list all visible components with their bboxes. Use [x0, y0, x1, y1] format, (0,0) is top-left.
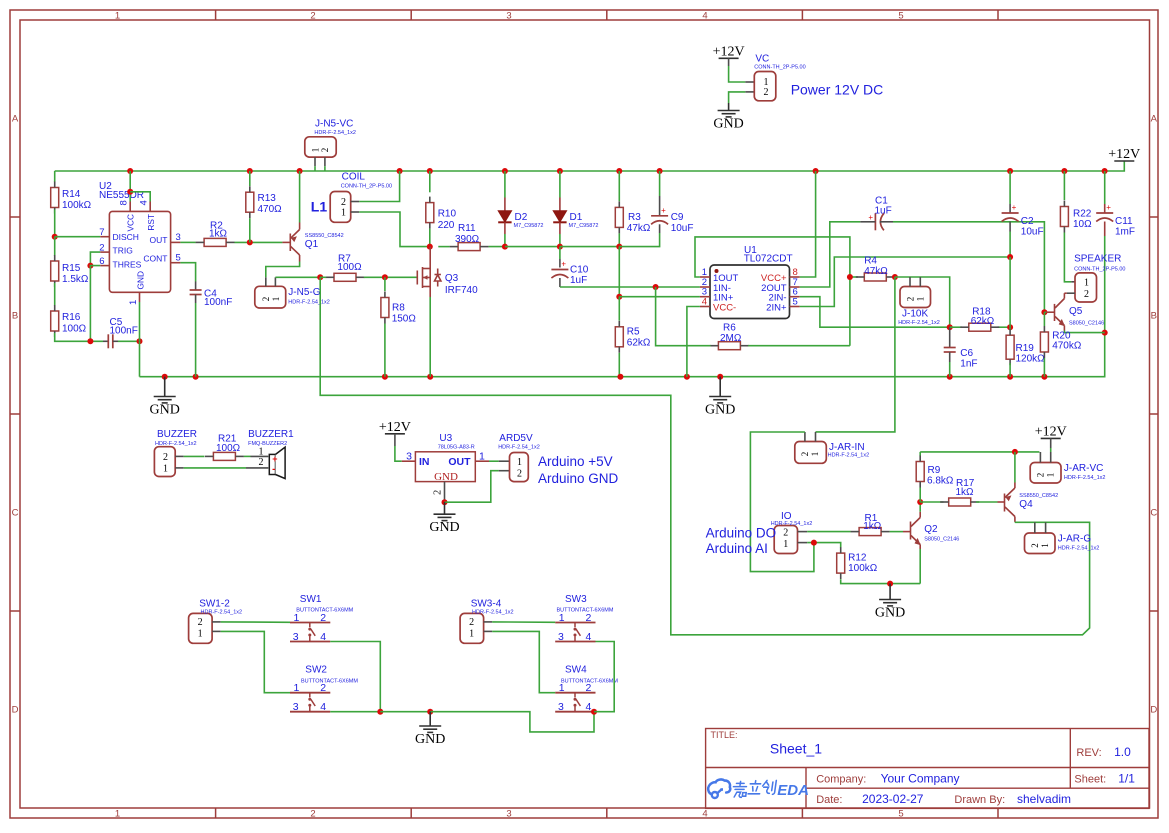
svg-text:GND: GND — [705, 403, 735, 418]
connector J-AR-G — [1025, 533, 1056, 554]
svg-text:ARD5V: ARD5V — [499, 433, 533, 444]
svg-text:1.5kΩ: 1.5kΩ — [62, 274, 89, 285]
pin 2 J-AR-G — [1034, 522, 1036, 533]
svg-text:47kΩ: 47kΩ — [864, 266, 888, 277]
junction at 849.9,277 — [847, 274, 853, 280]
capacitor C9 — [651, 206, 668, 225]
svg-text:1kΩ: 1kΩ — [956, 487, 975, 498]
title block — [706, 729, 1149, 809]
switch SW3 — [555, 623, 595, 642]
resistor R9 — [916, 462, 924, 482]
wire — [195, 282, 197, 291]
svg-text:+: + — [1106, 203, 1111, 212]
pin 2 J-10K — [909, 277, 911, 287]
connector ARD5V — [510, 453, 529, 482]
svg-text:1: 1 — [163, 464, 168, 475]
pin 1 J-N5-VC — [314, 157, 316, 166]
connector J-N5-VC — [305, 137, 336, 157]
junction at 619.3,171 — [616, 168, 622, 174]
svg-text:TITLE:: TITLE: — [711, 730, 738, 740]
svg-text:RST: RST — [146, 214, 156, 231]
wire — [728, 58, 730, 66]
junction at 299.6,171 — [297, 168, 303, 174]
svg-text:R9: R9 — [928, 465, 941, 476]
wire U1 pin1 feedback — [695, 237, 850, 346]
+12V power flag — [1035, 424, 1067, 439]
wire — [1009, 222, 1011, 232]
svg-text:R22: R22 — [1073, 209, 1092, 220]
junction at 444.5,502.2 — [442, 499, 448, 505]
wire Q1 emitter to +12V — [299, 171, 301, 223]
svg-text:BUZZER: BUZZER — [157, 429, 197, 440]
svg-text:2: 2 — [198, 617, 203, 628]
pin 6 U1 — [790, 296, 800, 298]
svg-text:100nF: 100nF — [110, 326, 138, 337]
svg-text:47kΩ: 47kΩ — [627, 223, 651, 234]
svg-text:+: + — [1012, 203, 1017, 212]
diode D2 — [498, 198, 511, 235]
resistor R4 — [864, 273, 886, 281]
svg-text:2: 2 — [433, 490, 444, 495]
wire THRES down — [90, 266, 100, 342]
wire — [949, 327, 951, 347]
wire — [559, 247, 561, 259]
junction at 815.6,171 — [813, 168, 819, 174]
pin 2 U2 — [100, 251, 109, 253]
svg-text:1: 1 — [915, 297, 925, 302]
svg-text:1: 1 — [1084, 278, 1089, 289]
wire — [880, 221, 893, 223]
pin 1 U3 — [475, 460, 489, 462]
wire SW1 pin4 down — [330, 642, 380, 712]
junction at 130.2,171 — [127, 168, 133, 174]
wire — [1009, 232, 1011, 258]
ground at VC — [713, 111, 743, 132]
svg-text:C9: C9 — [671, 212, 684, 223]
frame column numbers — [115, 10, 904, 819]
svg-text:3: 3 — [293, 631, 299, 643]
resistor R13 — [246, 192, 254, 212]
junction at 139.5,341.3 — [137, 338, 143, 344]
pin 2 COIL — [351, 201, 360, 203]
resistor R2 — [204, 238, 226, 246]
wire pin2 VC — [745, 91, 754, 93]
svg-text:GND: GND — [136, 271, 146, 289]
connector J-10K — [900, 287, 931, 308]
connector SPEAKER — [1075, 273, 1097, 302]
svg-text:Power 12V DC: Power 12V DC — [791, 81, 884, 97]
svg-text:Drawn By:: Drawn By: — [954, 794, 1005, 806]
svg-text:VCC-: VCC- — [713, 303, 736, 314]
svg-text:J-N5-VC: J-N5-VC — [315, 118, 353, 129]
junction at 619.3,296.7 — [616, 294, 622, 300]
svg-text:THRES: THRES — [113, 259, 142, 269]
wire — [504, 171, 506, 198]
svg-text:4: 4 — [320, 631, 326, 643]
resistor R3 — [615, 207, 623, 227]
pin 2 SW1-2 — [212, 621, 221, 623]
svg-text:390Ω: 390Ω — [455, 234, 480, 245]
svg-text:J-N5-G: J-N5-G — [288, 287, 320, 298]
svg-text:3: 3 — [558, 631, 564, 643]
svg-text:2: 2 — [320, 148, 330, 153]
+12V power flag — [713, 44, 745, 59]
svg-text:B: B — [1151, 311, 1157, 322]
wire — [618, 297, 620, 321]
resistor R11 — [458, 243, 480, 251]
wire — [505, 246, 560, 248]
connector VC — [754, 72, 776, 101]
wire — [1044, 311, 1046, 313]
transistor Q3 IRF740 MOSFET — [417, 267, 441, 288]
wire — [384, 277, 386, 291]
svg-text:2: 2 — [586, 612, 592, 624]
svg-text:1: 1 — [469, 629, 474, 640]
svg-text:HDR-F-2.54_1x2: HDR-F-2.54_1x2 — [828, 453, 870, 459]
wire C10 to U1 pin2 — [560, 286, 656, 288]
svg-text:1uF: 1uF — [570, 275, 587, 286]
wire — [950, 326, 962, 328]
wire — [1104, 236, 1106, 333]
svg-text:CONN-TH_2P-P5.00: CONN-TH_2P-P5.00 — [754, 64, 805, 70]
svg-text:HDR-F-2.54_1x2: HDR-F-2.54_1x2 — [201, 610, 243, 616]
svg-text:1: 1 — [479, 451, 485, 463]
wire U3 gnd to ARD5V pin2 — [445, 471, 499, 503]
svg-text:1: 1 — [810, 452, 820, 457]
junction at 890.1,583.6 — [887, 581, 893, 587]
svg-text:1kΩ: 1kΩ — [863, 521, 882, 532]
resistor R14 — [51, 188, 59, 208]
wire — [139, 341, 141, 376]
wire DISCH — [55, 236, 100, 238]
svg-text:1: 1 — [559, 682, 565, 694]
svg-text:2: 2 — [310, 10, 315, 21]
svg-text:3: 3 — [558, 701, 564, 713]
wire Q2 collector — [919, 502, 921, 512]
wire SW1-2 pin1 to SW2 — [221, 631, 290, 692]
connector COIL L1 — [330, 192, 351, 223]
resistor R16 — [51, 311, 59, 331]
pin 1 J-AR-IN — [815, 432, 817, 442]
svg-text:HDR-F-2.54_1x2: HDR-F-2.54_1x2 — [898, 320, 940, 326]
junction at 1044.4,312.2 — [1041, 309, 1047, 315]
pin 2 U1 — [700, 286, 710, 288]
capacitor C4 — [190, 290, 202, 295]
svg-text:2: 2 — [259, 457, 264, 468]
pin 1 U1 — [700, 276, 710, 278]
svg-text:2: 2 — [261, 297, 271, 302]
wire pin1 VC — [745, 81, 754, 83]
wire SW1-2 pin2 to SW1 — [221, 621, 290, 623]
svg-text:3: 3 — [293, 701, 299, 713]
capacitor C11 — [1096, 203, 1113, 222]
junction at 320.2,277.3 — [317, 274, 323, 280]
svg-text:2: 2 — [341, 197, 346, 208]
wire — [1009, 257, 1011, 327]
wire — [559, 171, 561, 198]
svg-text:1: 1 — [128, 300, 139, 305]
svg-text:1uF: 1uF — [875, 205, 892, 216]
junction at 1104.7,332.6 — [1102, 330, 1108, 336]
svg-text:SPEAKER: SPEAKER — [1074, 254, 1121, 265]
wire VCC pin8 — [129, 171, 131, 202]
wire — [314, 166, 316, 171]
wire — [489, 246, 505, 248]
junction at 504.9,246.6 — [502, 244, 508, 250]
svg-text:78L05G-A83-R: 78L05G-A83-R — [438, 444, 475, 450]
svg-text:OUT: OUT — [448, 456, 471, 468]
pin 1 IO — [798, 542, 808, 544]
wire Q3 source — [429, 297, 431, 377]
junction at 594,711.7 — [591, 709, 597, 715]
wire — [860, 221, 875, 223]
pin 3 U1 — [700, 296, 710, 298]
wire R22 to speaker pin1 — [1064, 233, 1071, 282]
svg-text:SW2: SW2 — [305, 665, 327, 676]
svg-text:2: 2 — [1036, 473, 1046, 478]
svg-text:2023-02-27: 2023-02-27 — [862, 792, 924, 806]
wire — [118, 340, 140, 342]
pin 8 U2 — [129, 202, 131, 212]
wire — [976, 501, 998, 503]
pin 2 J-N5-G — [265, 277, 267, 286]
wire — [249, 171, 251, 186]
connector BUZZER — [154, 447, 175, 477]
svg-text:HDR-F-2.54_1x2: HDR-F-2.54_1x2 — [472, 610, 514, 616]
wire — [998, 326, 1011, 328]
wire — [1050, 448, 1052, 452]
wire — [850, 276, 858, 278]
transistor Q4 SS8550 PNP — [998, 483, 1015, 522]
wire SW3-4 pin2 to SW3 — [492, 621, 555, 623]
svg-text:R5: R5 — [627, 327, 640, 338]
junction at 195.6,376.7 — [193, 374, 199, 380]
svg-text:R16: R16 — [62, 312, 81, 323]
wire — [438, 246, 449, 248]
svg-text:1nF: 1nF — [960, 359, 977, 370]
svg-text:Sheet_1: Sheet_1 — [770, 741, 822, 757]
wire — [656, 286, 700, 288]
resistor R21 — [213, 452, 235, 460]
svg-text:VCC: VCC — [126, 214, 136, 232]
wire — [1043, 312, 1045, 326]
svg-text:Arduino DO: Arduino DO — [706, 526, 777, 541]
ground middle — [705, 397, 735, 418]
pin 5 U2 — [171, 262, 181, 264]
pin 7 U2 — [100, 236, 109, 238]
capacitor C1 — [868, 213, 884, 231]
svg-text:shelvadim: shelvadim — [1017, 792, 1071, 806]
junction at 384.9,277.3 — [382, 274, 388, 280]
wire — [324, 166, 326, 171]
svg-text:2: 2 — [764, 87, 769, 98]
svg-text:GND: GND — [434, 471, 458, 483]
svg-text:R13: R13 — [258, 193, 277, 204]
wire buzzer pin2 — [246, 467, 268, 469]
svg-text:1/1: 1/1 — [1118, 772, 1135, 786]
svg-text:R12: R12 — [848, 553, 867, 564]
ground at U3 — [429, 514, 459, 535]
svg-text:1: 1 — [1046, 473, 1056, 478]
svg-text:2: 2 — [905, 297, 915, 302]
svg-text:62kΩ: 62kΩ — [627, 338, 651, 349]
wire — [618, 171, 620, 201]
svg-text:3: 3 — [506, 10, 511, 21]
svg-text:A: A — [12, 114, 19, 125]
pin 1 U2 — [139, 292, 141, 302]
wire Q2 emitter — [919, 549, 921, 584]
wire — [55, 333, 103, 341]
svg-text:HDR-F-2.54_1x2: HDR-F-2.54_1x2 — [314, 130, 356, 136]
wire R12 bottom — [841, 579, 921, 583]
svg-text:S8050_C2146: S8050_C2146 — [924, 537, 959, 543]
frame row letters — [12, 114, 1158, 716]
svg-text:2IN+: 2IN+ — [766, 303, 787, 314]
junction at 559.9,246.6 — [557, 244, 563, 250]
svg-text:1: 1 — [294, 682, 300, 694]
wire — [1009, 171, 1011, 204]
svg-text:L1: L1 — [311, 199, 328, 215]
connector SW1-2 — [189, 613, 213, 643]
pin 5 U1 — [790, 306, 800, 308]
wire — [54, 210, 56, 237]
wire — [380, 711, 430, 713]
pin 2 BUZZER — [175, 455, 184, 457]
svg-text:HDR-F-2.54_1x2: HDR-F-2.54_1x2 — [1064, 475, 1106, 481]
resistor R15 — [51, 261, 59, 281]
wire to J-AR-IN pin1 — [816, 277, 895, 432]
svg-text:470Ω: 470Ω — [258, 204, 283, 215]
svg-text:1kΩ: 1kΩ — [209, 229, 228, 240]
junction at 1014.9,451.9 — [1012, 449, 1018, 455]
junction at 1104.6,171 — [1102, 168, 1108, 174]
junction at 429.8,171 — [427, 168, 433, 174]
wire — [394, 434, 396, 446]
junction at 249.8,242.4 — [247, 239, 253, 245]
wire — [1009, 363, 1011, 377]
wire — [184, 455, 205, 457]
svg-text:100Ω: 100Ω — [337, 262, 362, 273]
svg-text:SW1: SW1 — [300, 594, 322, 605]
svg-text:EDA: EDA — [777, 782, 809, 799]
svg-text:D2: D2 — [515, 212, 528, 223]
wire — [384, 324, 386, 377]
svg-text:Sheet:: Sheet: — [1074, 774, 1106, 786]
svg-text:SW1-2: SW1-2 — [199, 599, 230, 610]
junction at 399.6,171 — [397, 168, 403, 174]
wire — [949, 362, 951, 377]
wire — [364, 276, 418, 278]
switch SW1 — [290, 623, 330, 642]
wire IO pin1 to R12 — [807, 543, 841, 548]
svg-text:1: 1 — [271, 297, 281, 302]
wire U1 VCC- to GND — [687, 307, 700, 377]
svg-text:100kΩ: 100kΩ — [848, 563, 878, 574]
wire — [889, 584, 891, 600]
wire coil pin2 to +12V — [359, 171, 399, 202]
wire — [728, 103, 730, 111]
svg-text:Company:: Company: — [816, 774, 866, 786]
svg-text:+12V: +12V — [713, 44, 745, 59]
svg-text:J-AR-G: J-AR-G — [1058, 534, 1092, 545]
wire U1 2OUT to C1 — [800, 222, 861, 287]
svg-text:C2: C2 — [1021, 216, 1034, 227]
wire — [659, 196, 661, 215]
capacitor C5 — [108, 334, 113, 348]
wire Q5 emitter — [1064, 331, 1104, 333]
svg-text:GND: GND — [713, 117, 743, 132]
wire — [103, 340, 108, 342]
EasyEDA logo cloud — [708, 779, 730, 794]
resistor R19 — [1006, 335, 1014, 359]
svg-text:Arduino GND: Arduino GND — [538, 471, 619, 486]
junction at 813.9,542.6 — [811, 540, 817, 546]
svg-text:D: D — [12, 705, 19, 716]
junction at 90.4,265.6 — [87, 263, 93, 269]
svg-text:R20: R20 — [1052, 330, 1071, 341]
svg-text:1: 1 — [783, 539, 788, 550]
connector J-N5-G — [255, 286, 286, 308]
wire — [1050, 438, 1052, 448]
svg-text:2: 2 — [163, 452, 168, 463]
wire — [618, 233, 620, 246]
svg-text:4: 4 — [702, 297, 707, 308]
pin 2 J-AR-VC — [1039, 452, 1041, 463]
wire — [184, 467, 246, 469]
svg-text:1: 1 — [115, 808, 120, 819]
transistor Q5 S8050 NPN — [1046, 293, 1067, 330]
svg-text:GND: GND — [150, 403, 180, 418]
resistor R8 — [381, 298, 389, 318]
svg-text:U3: U3 — [439, 433, 452, 444]
resistor R17 — [949, 498, 971, 506]
capacitor C2 — [1002, 203, 1019, 222]
connector SW3-4 — [460, 613, 484, 643]
wire — [1104, 222, 1106, 237]
op-amp U1 TL072CDT body — [710, 265, 790, 319]
svg-text:1: 1 — [559, 612, 565, 624]
wire to U1 pin3 — [619, 296, 700, 298]
pin 2 SW3-4 — [484, 621, 493, 623]
wire SW2 pin4 — [330, 711, 380, 713]
svg-text:1: 1 — [198, 629, 203, 640]
svg-text:BUTTONTACT-6X6MM: BUTTONTACT-6X6MM — [301, 679, 358, 685]
svg-text:R8: R8 — [392, 303, 405, 314]
wire — [504, 234, 506, 247]
junction at 1044.4,376.7 — [1041, 374, 1047, 380]
junction at 720.2,376.7 — [717, 374, 723, 380]
wire — [1071, 281, 1075, 283]
pin 2 J-AR-IN — [804, 432, 806, 442]
svg-text:SW3: SW3 — [565, 594, 587, 605]
wire R9 to +12V line — [920, 451, 1039, 453]
pin 3 U3 — [402, 460, 416, 462]
junction at 659.6,171 — [657, 168, 663, 174]
svg-text:1.0: 1.0 — [1114, 745, 1131, 759]
junction at 90.4,341.3 — [87, 338, 93, 344]
capacitor C10 — [551, 260, 568, 279]
wire — [618, 247, 620, 297]
wire TRIG — [90, 252, 100, 266]
+12V power flag — [1108, 147, 1140, 162]
junction at 504.9,171 — [502, 168, 508, 174]
junction at 54.7,236.7 — [52, 234, 58, 240]
svg-text:5: 5 — [898, 808, 903, 819]
ground under 555 area — [150, 397, 180, 418]
pin 1 J-N5-G — [274, 277, 276, 286]
switch SW2 — [290, 693, 330, 712]
junction at 686.9,376.7 — [684, 374, 690, 380]
